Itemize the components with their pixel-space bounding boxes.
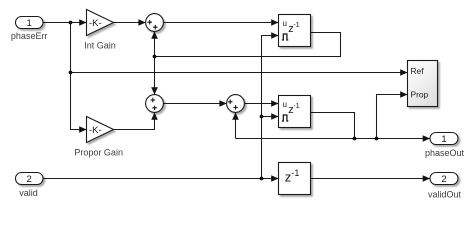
svg-text:valid: valid — [19, 188, 38, 198]
svg-text:Prop: Prop — [411, 89, 429, 99]
svg-text:-1: -1 — [293, 20, 300, 29]
svg-text:phaseErr: phaseErr — [11, 31, 48, 41]
svg-text:u: u — [283, 19, 287, 28]
svg-text:phaseOut: phaseOut — [425, 148, 465, 158]
svg-text:2: 2 — [441, 174, 446, 185]
svg-text:-K-: -K- — [89, 18, 102, 29]
svg-text:Int Gain: Int Gain — [84, 41, 116, 51]
svg-text:2: 2 — [27, 174, 32, 185]
svg-text:Propor Gain: Propor Gain — [74, 147, 123, 157]
svg-text:Ref: Ref — [411, 66, 425, 76]
svg-text:-K-: -K- — [89, 125, 102, 136]
svg-text:-1: -1 — [291, 168, 299, 178]
svg-text:1: 1 — [441, 134, 446, 145]
svg-text:u: u — [283, 100, 287, 109]
svg-text:validOut: validOut — [428, 190, 462, 200]
svg-text:1: 1 — [27, 18, 32, 29]
svg-text:z: z — [285, 169, 292, 184]
svg-text:-1: -1 — [293, 101, 300, 110]
